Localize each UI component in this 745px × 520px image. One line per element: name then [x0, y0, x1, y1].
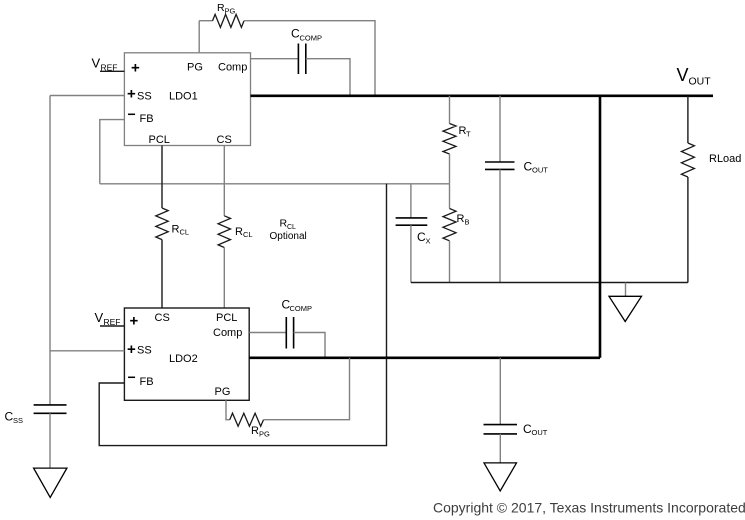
- ground (mid right): [609, 296, 642, 321]
- svg-text:X: X: [426, 237, 431, 246]
- wire COUT1 to ground line: [499, 169, 501, 282]
- svg-text:LDO1: LDO1: [169, 91, 198, 103]
- svg-text:OUT: OUT: [532, 428, 548, 437]
- svg-text:B: B: [465, 218, 470, 227]
- capacitor COUT (upper): [485, 162, 515, 169]
- svg-text:R: R: [457, 213, 465, 225]
- wire PG to RPG1: [199, 20, 212, 22]
- ground (bottom left): [34, 468, 67, 497]
- svg-text:−: −: [128, 369, 136, 385]
- svg-text:V: V: [95, 310, 104, 325]
- wire RCL to LDO2 CS: [161, 240, 163, 308]
- svg-text:PG: PG: [187, 62, 203, 74]
- svg-text:LDO2: LDO2: [169, 353, 198, 365]
- svg-text:COMP: COMP: [290, 304, 313, 313]
- svg-text:RLoad: RLoad: [709, 153, 741, 165]
- svg-text:FB: FB: [140, 113, 154, 125]
- svg-text:FB: FB: [140, 376, 154, 388]
- capacitor CCOMP (LDO2): [286, 317, 293, 349]
- capacitor CCOMP (LDO1): [298, 44, 305, 75]
- svg-text:COMP: COMP: [300, 34, 323, 43]
- wire LDO1 PCL down: [161, 146, 163, 209]
- wire RT to divider node: [449, 154, 451, 184]
- wire LDO1 FB to divider node: [100, 120, 125, 184]
- svg-text:CS: CS: [217, 134, 232, 146]
- wire divider node to CX: [410, 184, 412, 218]
- wire LDO2 Comp to CCOMP2: [249, 332, 286, 334]
- svg-text:SS: SS: [137, 345, 152, 357]
- op-amp U1 LDO1 box: [124, 53, 250, 146]
- wire VOUT to COUT1: [499, 96, 501, 162]
- resistor RB: [443, 209, 456, 241]
- resistor RCL (left): [156, 208, 168, 240]
- wire CX to ground line: [410, 225, 412, 282]
- svg-text:+: +: [127, 341, 136, 358]
- wire VOUT rail (thick, LDO1 output): [251, 95, 714, 98]
- svg-text:+: +: [131, 59, 140, 76]
- svg-text:SS: SS: [13, 416, 23, 425]
- resistor RPG (top, LDO1): [213, 14, 245, 27]
- svg-text:PCL: PCL: [216, 312, 237, 324]
- svg-text:R: R: [235, 226, 243, 238]
- wire divider node line: [100, 183, 450, 185]
- wire VREF to LDO2 + pin: [100, 325, 124, 327]
- wire ground stub: [625, 283, 627, 297]
- svg-text:CL: CL: [243, 230, 253, 239]
- svg-text:PCL: PCL: [149, 134, 170, 146]
- svg-text:Optional: Optional: [270, 231, 307, 242]
- wire RPG2 to output rail: [264, 358, 350, 420]
- svg-text:R: R: [251, 425, 259, 437]
- svg-text:OUT: OUT: [532, 166, 548, 175]
- wire LDO2 output rail (thick): [249, 356, 600, 359]
- resistor RCL (right): [218, 216, 230, 248]
- wire SS1 to left rail: [50, 95, 124, 97]
- svg-text:PG: PG: [215, 386, 231, 398]
- ground (bottom right): [484, 463, 517, 491]
- wire LDO1 CS down: [223, 146, 225, 216]
- resistor RLoad: [681, 143, 694, 177]
- resistor RT: [443, 124, 456, 155]
- svg-text:V: V: [92, 56, 101, 71]
- capacitor CSS plates: [34, 405, 67, 413]
- wire VREF to LDO1 + pin: [100, 70, 124, 72]
- svg-text:T: T: [466, 130, 471, 139]
- wire LDO1 PG riser: [198, 21, 200, 53]
- wire VOUT to RLoad: [687, 96, 689, 143]
- svg-text:PG: PG: [225, 7, 236, 16]
- wire VOUT to RT: [449, 96, 451, 124]
- svg-text:CS: CS: [155, 312, 170, 324]
- wire CCOMP2 to output rail: [294, 333, 325, 358]
- capacitor COUT (lower): [484, 425, 518, 434]
- svg-text:V: V: [677, 65, 689, 85]
- wire RCL to LDO2 PCL: [223, 248, 225, 309]
- wire RPG1 to VOUT riser: [244, 21, 375, 96]
- svg-text:+: +: [127, 85, 136, 102]
- wire LDO2 output to COUT2: [499, 358, 501, 425]
- svg-text:CL: CL: [180, 227, 190, 236]
- wire SS2 to left rail: [50, 350, 124, 352]
- wire CSS to ground: [49, 413, 51, 468]
- svg-text:Comp: Comp: [218, 62, 247, 74]
- wire upper ground line: [411, 282, 688, 284]
- wire divider node to RB: [449, 184, 451, 209]
- svg-text:PG: PG: [259, 430, 270, 439]
- wire LDO2 FB feedback path: [99, 184, 386, 446]
- svg-text:OUT: OUT: [689, 76, 712, 88]
- wire LDO1 Comp to CCOMP: [251, 58, 299, 60]
- svg-text:R: R: [172, 223, 180, 235]
- wire LDO2 PG down: [226, 400, 230, 419]
- wire COUT2 to ground: [499, 434, 501, 463]
- wire left soft-start rail: [49, 96, 51, 405]
- svg-text:−: −: [128, 106, 136, 122]
- op-amp U2 LDO2 box: [124, 308, 249, 400]
- svg-text:SS: SS: [137, 91, 152, 103]
- svg-text:Copyright © 2017, Texas Instru: Copyright © 2017, Texas Instruments Inco…: [433, 500, 745, 516]
- svg-text:Comp: Comp: [213, 327, 242, 339]
- wire RLoad to ground line: [687, 177, 689, 283]
- wire CCOMP to VOUT: [306, 59, 350, 96]
- wire VOUT thick vertical: [599, 96, 602, 358]
- capacitor CX: [396, 218, 428, 225]
- svg-text:+: +: [130, 313, 139, 330]
- wire RB to ground line: [449, 241, 451, 283]
- resistor RPG (LDO2): [230, 413, 264, 426]
